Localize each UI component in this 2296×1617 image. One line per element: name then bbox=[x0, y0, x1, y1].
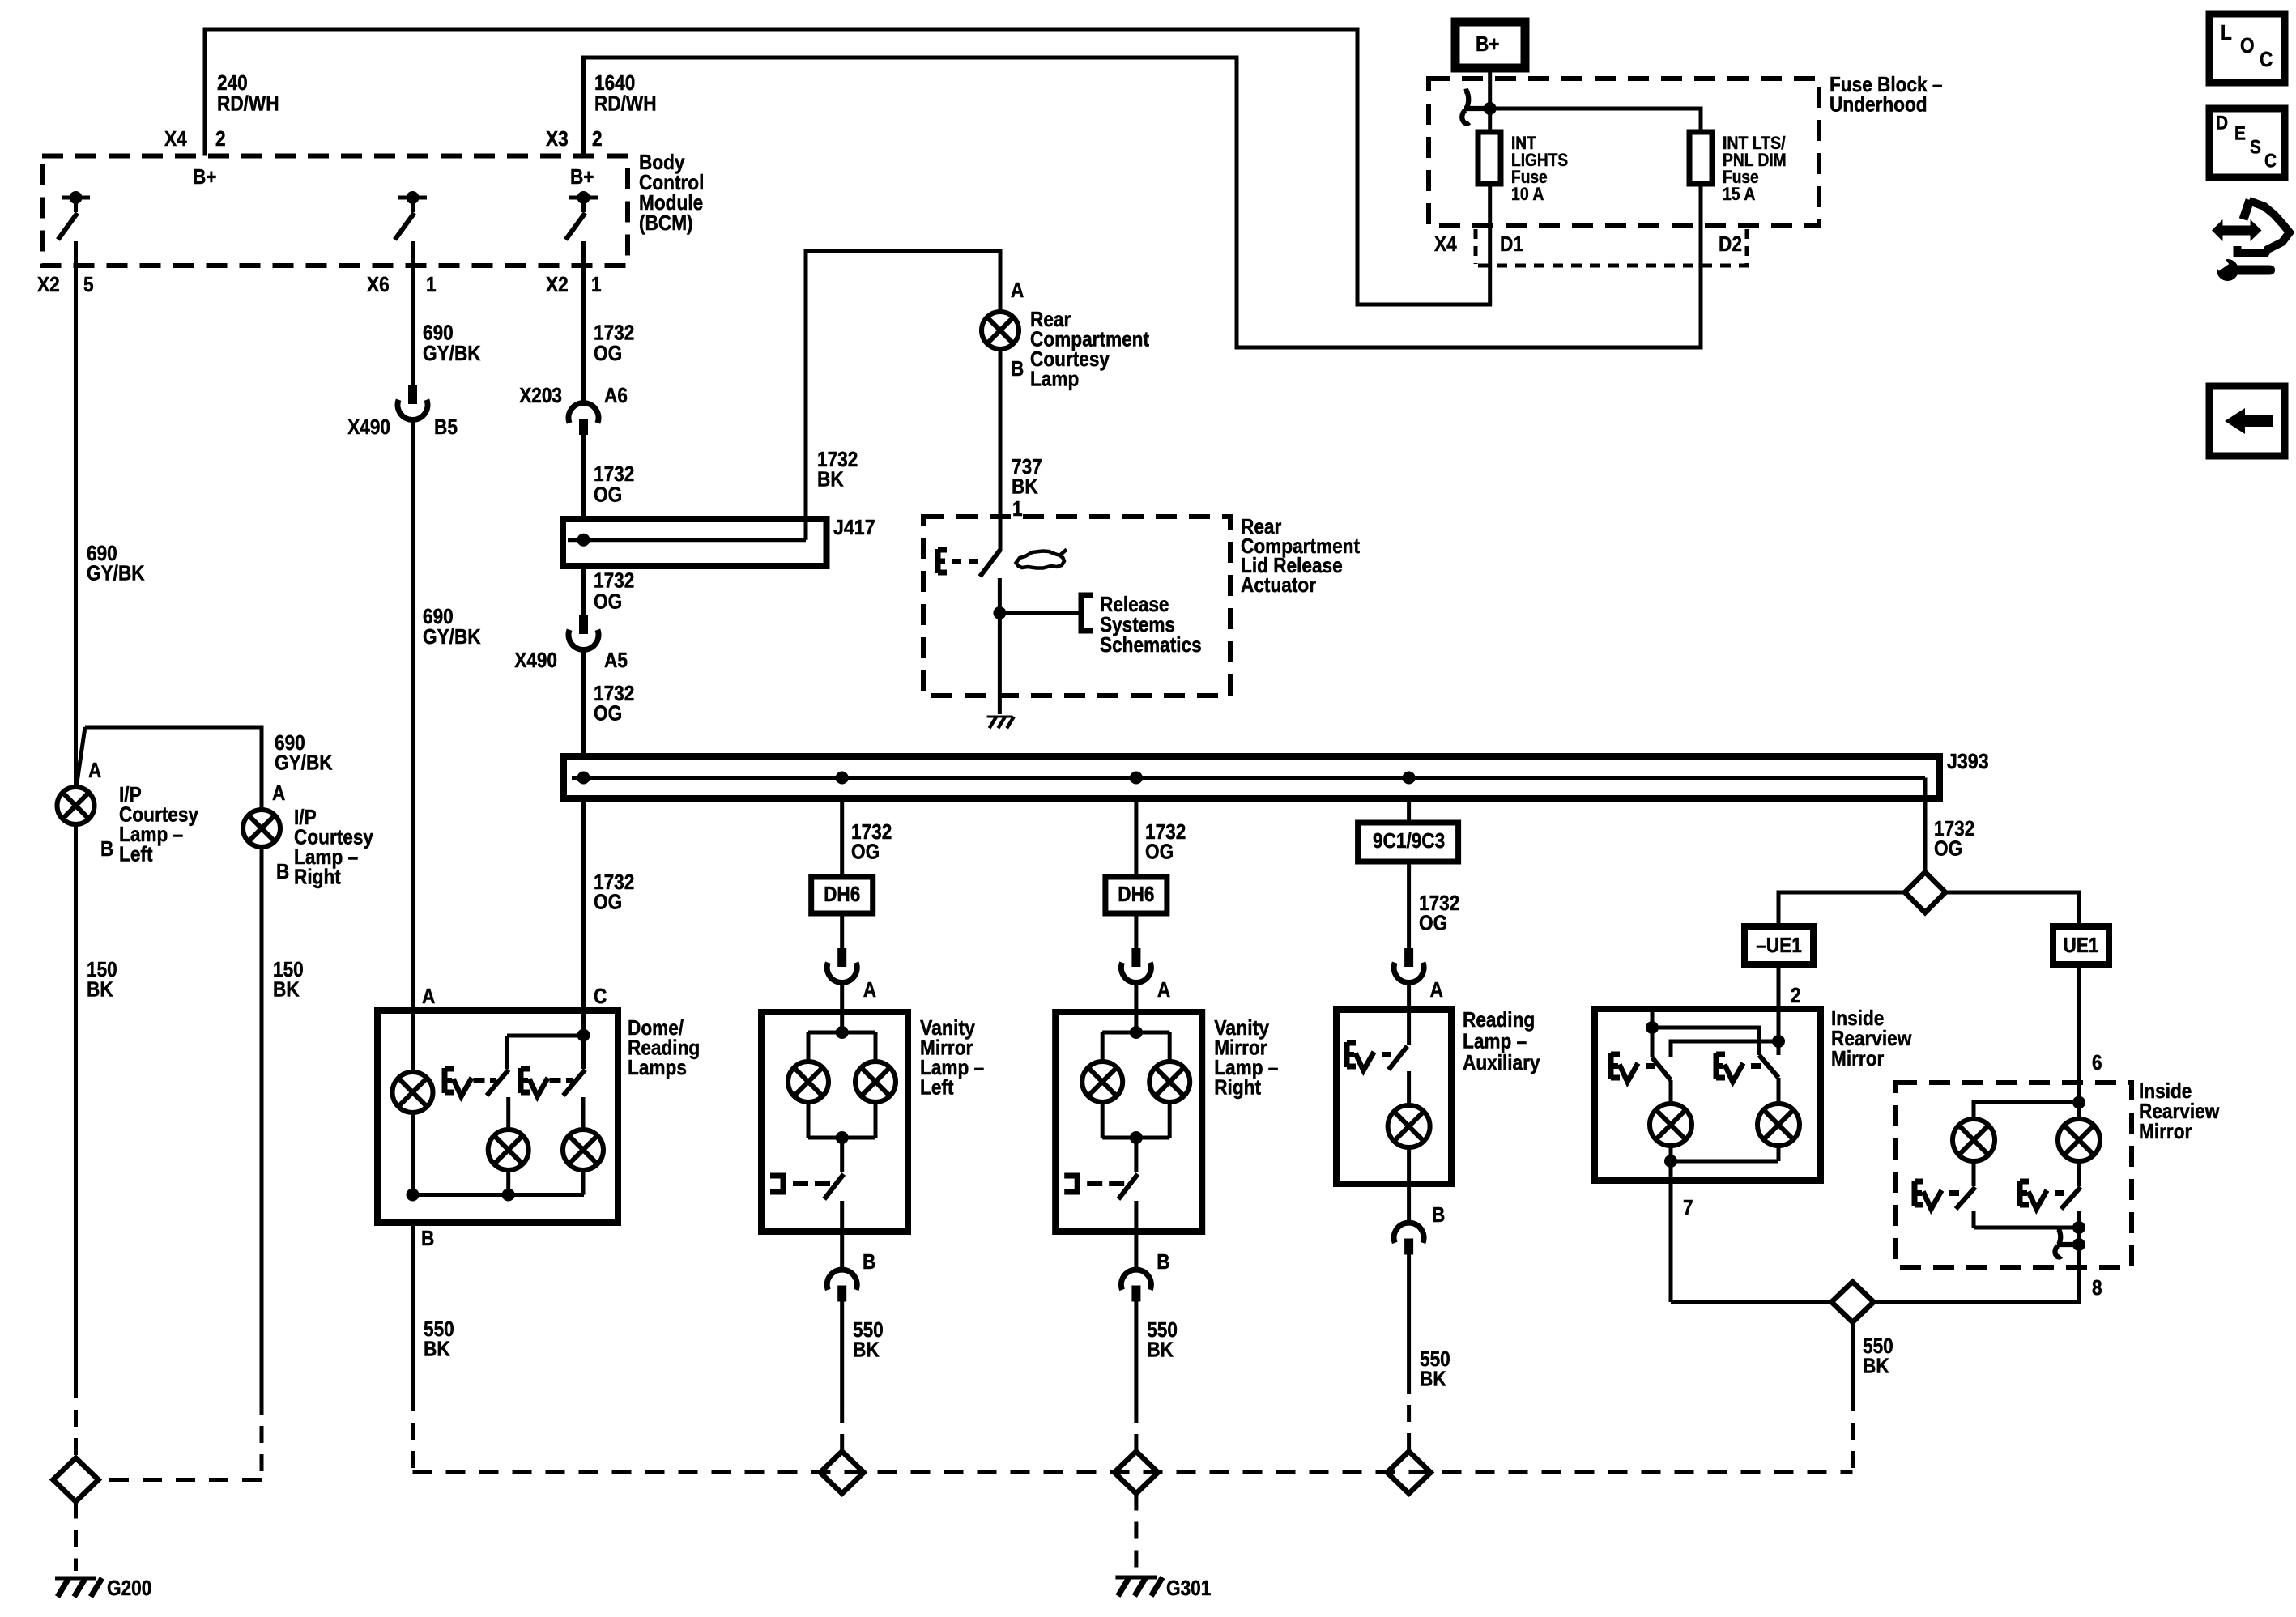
label X490 A5 bbox=[514, 648, 628, 672]
wire vanity left B bbox=[840, 1232, 844, 1270]
wire mirror dashed internal rail bbox=[1974, 1226, 2079, 1230]
svg-text:10 A: 10 A bbox=[1511, 184, 1544, 204]
wire mirror dashed lamp2 feed bbox=[2077, 1103, 2081, 1120]
fuse INT LTS/PNL DIM 15 A bbox=[1689, 132, 1787, 204]
junction dot mirror line2 bbox=[1772, 1035, 1785, 1048]
svg-text:X4: X4 bbox=[1434, 232, 1457, 256]
svg-text:B+: B+ bbox=[570, 164, 594, 189]
svg-text:B: B bbox=[1157, 1249, 1169, 1274]
junction dot dome rail mid bbox=[502, 1189, 515, 1202]
lamp Reading Lamp Auxiliary bbox=[1388, 1105, 1430, 1147]
wire 1732 OG J393 to dome lamps C bbox=[581, 798, 586, 1011]
wire label 1732 OG (above J417) bbox=[594, 462, 634, 507]
svg-text:A5: A5 bbox=[604, 648, 628, 672]
junction dot mirror solid rail bbox=[1664, 1155, 1677, 1168]
svg-text:BK: BK bbox=[853, 1337, 880, 1361]
junction dot mirror dashed rail bbox=[2072, 1221, 2085, 1234]
inline connector vanity left pin A bbox=[827, 948, 857, 982]
wire to vanity left box bbox=[840, 983, 844, 1012]
splice diamond reading aux bbox=[1387, 1452, 1431, 1494]
wire 1732 OG J393 to DH6 right bbox=[1134, 798, 1138, 877]
switch BCM output 2 bbox=[395, 191, 428, 240]
module box Inside Rearview Mirror dashed bbox=[1896, 1083, 2132, 1267]
svg-text:C: C bbox=[2264, 150, 2277, 172]
svg-text:8: 8 bbox=[2092, 1275, 2102, 1300]
module box Dome/Reading Lamps bbox=[377, 1011, 618, 1223]
label X490 B5 bbox=[347, 415, 458, 439]
svg-text:L: L bbox=[2221, 20, 2232, 45]
svg-text:DH6: DH6 bbox=[1118, 882, 1154, 906]
splice diamond 550 BK mirror bbox=[1832, 1282, 1874, 1322]
bracket vanity right switch bbox=[1064, 1176, 1124, 1192]
svg-text:7: 7 bbox=[1683, 1195, 1693, 1219]
wire label 1732 OG vanity left bbox=[851, 819, 892, 864]
junction dot mirror dashed hook bbox=[2072, 1238, 2085, 1251]
svg-text:A: A bbox=[1011, 278, 1024, 302]
switch BCM output 1 bbox=[58, 191, 91, 240]
svg-text:Mirror: Mirror bbox=[1831, 1046, 1884, 1070]
svg-text:A: A bbox=[422, 984, 435, 1008]
wire ground rail to G301 dashed bbox=[413, 1470, 1853, 1474]
lamp vanity right 1 bbox=[1082, 1062, 1122, 1138]
fusible-link hook mirror dashed bbox=[2055, 1230, 2079, 1257]
lamp mirror solid 1 bbox=[1650, 1104, 1692, 1161]
wire 240 RD/WH from fuse D1 to BCM X4-2 bbox=[205, 29, 1490, 304]
wire 550 BK mirror to rail bbox=[1851, 1322, 1855, 1473]
label Inside Rearview Mirror solid box bbox=[1831, 1006, 1912, 1070]
wire 550 BK vanity right bbox=[1134, 1301, 1138, 1452]
wire mirror dashed top rail bbox=[1974, 1103, 2079, 1120]
svg-text:X203: X203 bbox=[519, 383, 562, 407]
svg-text:E: E bbox=[2234, 122, 2246, 144]
icon box DESC bbox=[2209, 109, 2285, 177]
lamp dome courtesy (A side) bbox=[393, 1011, 433, 1195]
wire label 1732 OG (above J393) bbox=[594, 681, 634, 726]
label Reading Lamp - Auxiliary bbox=[1463, 1007, 1540, 1074]
svg-text:OG: OG bbox=[594, 482, 622, 506]
module box BCM (Body Control Module) dashed outline bbox=[42, 156, 628, 266]
wire splice to UE1 bbox=[1945, 892, 2079, 926]
junction dot B+ rail bbox=[1484, 102, 1497, 115]
wire G301 drop dashed bbox=[1134, 1494, 1138, 1570]
svg-text:15 A: 15 A bbox=[1723, 184, 1755, 204]
svg-text:DH6: DH6 bbox=[824, 882, 860, 906]
wire 1732 OG J393 right end to splice bbox=[1923, 778, 1928, 873]
svg-text:6: 6 bbox=[2092, 1050, 2102, 1074]
switch reading aux bbox=[1389, 1010, 1409, 1105]
wire to reading aux box bbox=[1407, 983, 1411, 1010]
junction dot J393 vanity right bbox=[1130, 772, 1143, 785]
label Inside Rearview Mirror dashed box bbox=[2139, 1079, 2220, 1143]
label Dome/Reading Lamps bbox=[628, 1015, 700, 1079]
wire reading aux lamp to B bbox=[1407, 1147, 1411, 1223]
splice diamond G200 bbox=[53, 1458, 99, 1502]
pin label X6 1 (BCM bottom middle) bbox=[367, 272, 437, 296]
bracket vanity left switch bbox=[770, 1176, 830, 1192]
wire to ground G200 dashed bbox=[74, 1502, 78, 1572]
junction dot mirror dashed top bbox=[2072, 1096, 2085, 1109]
connector DH6 vanity left bbox=[811, 877, 873, 913]
svg-text:OG: OG bbox=[1934, 836, 1962, 860]
module box Vanity Mirror Lamp - Right bbox=[1055, 1012, 1202, 1232]
lamp mirror dashed 1 bbox=[1953, 1119, 1995, 1186]
module box Reading Lamp - Auxiliary bbox=[1336, 1010, 1451, 1184]
svg-text:A: A bbox=[272, 781, 285, 805]
label Ev dome switch 1 bbox=[445, 1068, 496, 1096]
svg-text:Left: Left bbox=[119, 841, 153, 866]
wire label 737 BK bbox=[1012, 454, 1042, 499]
svg-text:Auxiliary: Auxiliary bbox=[1463, 1050, 1540, 1074]
wire mirror internal line1 bbox=[1652, 1028, 1759, 1055]
bracket release systems reference bbox=[1081, 595, 1093, 631]
svg-text:A: A bbox=[863, 977, 876, 1002]
inline connector vanity right pin B bbox=[1121, 1270, 1151, 1301]
svg-text:GY/BK: GY/BK bbox=[423, 624, 481, 649]
svg-text:B: B bbox=[1432, 1202, 1445, 1227]
junction dot vanity left bottom bbox=[836, 1131, 849, 1144]
wire DH6 to inline connector vanity left bbox=[840, 913, 844, 948]
label Fuse Block - Underhood bbox=[1830, 72, 1943, 117]
inline connector reading aux pin A bbox=[1394, 948, 1424, 982]
module box Inside Rearview Mirror (solid) bbox=[1595, 1009, 1821, 1181]
switch dome reading lamp 2 bbox=[564, 1036, 586, 1130]
lamp vanity left 2 bbox=[855, 1062, 896, 1138]
svg-text:GY/BK: GY/BK bbox=[275, 750, 333, 774]
inline connector vanity left pin B bbox=[827, 1270, 857, 1301]
svg-text:UE1: UE1 bbox=[2064, 933, 2099, 957]
wire 150 BK right lamp to G200 rail bbox=[99, 847, 262, 1480]
svg-text:O: O bbox=[2240, 33, 2255, 57]
wire -UE1 to mirror pin 2 bbox=[1777, 964, 1781, 1009]
svg-text:OG: OG bbox=[1419, 910, 1447, 934]
svg-text:D1: D1 bbox=[1500, 232, 1523, 256]
label Rear Compartment Lid Release Actuator bbox=[1241, 514, 1360, 597]
pin label X4 2 (BCM top left) bbox=[164, 126, 226, 151]
label Vanity Mirror Lamp - Right bbox=[1214, 1015, 1278, 1100]
svg-text:X3: X3 bbox=[546, 126, 569, 151]
svg-text:GY/BK: GY/BK bbox=[423, 341, 481, 365]
svg-text:B+: B+ bbox=[193, 164, 217, 189]
svg-text:Actuator: Actuator bbox=[1241, 572, 1316, 597]
wire mirror solid internal rail bbox=[1671, 1160, 1778, 1164]
wire label 1732 OG (to dome C) bbox=[594, 870, 634, 914]
pin label X3 2 (BCM top right) bbox=[546, 126, 603, 151]
label Ev dome switch 2 bbox=[521, 1068, 573, 1096]
inline connector X490 pin A5 bbox=[569, 615, 598, 649]
inline connector vanity right pin A bbox=[1121, 948, 1151, 982]
svg-text:BK: BK bbox=[1147, 1337, 1174, 1361]
switch mirror solid 2 bbox=[1759, 1055, 1778, 1104]
wire label 550 BK vanity right bbox=[1147, 1317, 1178, 1362]
svg-text:X2: X2 bbox=[37, 272, 60, 296]
wire label 1732 BK bbox=[817, 447, 858, 491]
svg-text:C: C bbox=[2260, 47, 2273, 71]
switch mirror solid 1 bbox=[1652, 1057, 1671, 1104]
wire label 1732 OG vanity right bbox=[1145, 819, 1186, 864]
connector strip X4 D1 D2 bbox=[1434, 229, 1749, 266]
svg-text:A: A bbox=[88, 758, 101, 782]
svg-text:5: 5 bbox=[83, 272, 94, 296]
fusible-link hook at B+ junction bbox=[1462, 91, 1490, 124]
svg-text:B: B bbox=[1011, 356, 1024, 381]
svg-text:Lamps: Lamps bbox=[628, 1055, 687, 1079]
switch mirror dashed 2 bbox=[2061, 1187, 2081, 1228]
wire actuator internal ground bbox=[998, 613, 1002, 714]
wire vanity left lamps to switch bbox=[808, 1138, 875, 1172]
svg-text:X490: X490 bbox=[347, 415, 390, 439]
wire 1732 OG J393 to 9C1/9C3 bbox=[1407, 798, 1411, 823]
svg-text:BK: BK bbox=[273, 977, 300, 1001]
svg-text:1: 1 bbox=[591, 272, 602, 296]
lamp vanity left 1 bbox=[788, 1062, 829, 1138]
inline connector reading aux pin B bbox=[1394, 1223, 1424, 1254]
wire label 690 GY/BK bbox=[87, 541, 145, 585]
icon box LOC bbox=[2209, 14, 2285, 83]
wire 690 GY/BK BCM X2-5 to I/P lamps bbox=[74, 241, 78, 787]
svg-text:J417: J417 bbox=[833, 515, 875, 539]
wire label 550 BK reading aux bbox=[1420, 1347, 1450, 1391]
wire label 1640 RD/WH bbox=[594, 70, 657, 116]
label Body Control Module (BCM) bbox=[639, 150, 704, 235]
svg-text:RD/WH: RD/WH bbox=[594, 91, 657, 115]
svg-text:–UE1: –UE1 bbox=[1756, 933, 1802, 957]
svg-text:OG: OG bbox=[594, 589, 622, 613]
svg-text:Lamp –: Lamp – bbox=[1463, 1028, 1527, 1053]
svg-text:Left: Left bbox=[920, 1074, 954, 1099]
wire 1732 BK J417 to rear courtesy lamp bbox=[806, 252, 1000, 540]
svg-text:B: B bbox=[421, 1226, 434, 1250]
wire 1732 OG J393 to DH6 left bbox=[840, 798, 844, 877]
lamp I/P Courtesy Lamp - Left bbox=[58, 787, 95, 824]
svg-text:1: 1 bbox=[426, 272, 437, 296]
splice bus J393 bbox=[564, 756, 1940, 798]
wire 9C1/9C3 to inline connector aux bbox=[1407, 862, 1411, 948]
wire UE1 to dashed mirror pin 6 bbox=[2077, 964, 2081, 1103]
switch actuator door-jamb bbox=[980, 550, 1000, 613]
wire 737 BK lamp to actuator bbox=[999, 349, 1003, 551]
wire label 1732 OG (X2-1) bbox=[594, 320, 634, 365]
fuse INT LIGHTS 10 A bbox=[1478, 132, 1568, 204]
junction dot J393 reading aux bbox=[1403, 772, 1416, 785]
label I/P Courtesy Lamp - Right bbox=[294, 805, 373, 889]
connector DH6 vanity right bbox=[1105, 877, 1167, 913]
connector -UE1 bbox=[1744, 926, 1813, 964]
module box Fuse Block - Underhood dashed outline bbox=[1429, 79, 1819, 226]
pin label X2 1 (BCM bottom right) bbox=[546, 272, 602, 296]
svg-text:BK: BK bbox=[424, 1336, 450, 1360]
terminal B+ battery feed bbox=[1455, 22, 1525, 68]
lamp mirror solid 2 bbox=[1757, 1104, 1800, 1161]
svg-text:A: A bbox=[1430, 977, 1443, 1002]
module box Rear Compartment Lid Release Actuator dashed bbox=[923, 517, 1230, 696]
wire 1732 OG J417 to X490 A5 bbox=[581, 566, 586, 615]
svg-text:Lamp: Lamp bbox=[1030, 366, 1079, 390]
svg-text:C: C bbox=[594, 984, 607, 1008]
splice diamond vanity left bbox=[820, 1452, 864, 1494]
junction dot dome rail left bbox=[407, 1189, 420, 1202]
wire label 1732 OG aux bbox=[1419, 891, 1459, 935]
svg-text:B: B bbox=[276, 859, 289, 883]
wire 1732 OG X490 A5 to bus J393 bbox=[581, 650, 586, 756]
svg-text:B5: B5 bbox=[434, 415, 458, 439]
svg-text:GY/BK: GY/BK bbox=[87, 560, 145, 585]
svg-text:2: 2 bbox=[592, 126, 603, 151]
switch vanity right bbox=[1118, 1174, 1138, 1232]
junction dot dome C bbox=[577, 1029, 590, 1042]
wire 550 BK vanity left bbox=[840, 1301, 844, 1452]
svg-text:X6: X6 bbox=[367, 272, 390, 296]
label Ev mirror dashed switch 2 bbox=[2020, 1181, 2064, 1209]
lamp Rear Compartment Courtesy Lamp bbox=[982, 312, 1019, 349]
label Ev mirror solid switch 2 bbox=[1716, 1053, 1761, 1082]
svg-text:Underhood: Underhood bbox=[1830, 91, 1928, 116]
svg-text:Mirror: Mirror bbox=[2139, 1119, 2192, 1143]
wire branch tap to right I/P lamp bbox=[77, 727, 262, 810]
icon car silhouette bbox=[1016, 550, 1067, 568]
wire vanity left A to lamps bbox=[808, 1012, 875, 1062]
svg-text:BK: BK bbox=[1863, 1353, 1889, 1377]
wire 550 BK reading aux bbox=[1407, 1254, 1411, 1452]
module box Vanity Mirror Lamp - Left bbox=[761, 1012, 908, 1232]
label Vanity Mirror Lamp - Left bbox=[920, 1015, 984, 1100]
label E bracket actuator switch bbox=[938, 549, 978, 573]
wire DH6 to inline connector vanity right bbox=[1134, 913, 1138, 948]
lamp dome reading 2 bbox=[563, 1130, 603, 1195]
switch BCM output 3 bbox=[566, 191, 598, 240]
svg-text:BK: BK bbox=[1420, 1366, 1446, 1390]
lamp I/P Courtesy Lamp - Right bbox=[243, 810, 280, 847]
svg-text:2: 2 bbox=[215, 126, 226, 151]
svg-text:Schematics: Schematics bbox=[1100, 632, 1202, 657]
wire label 1732 OG (below J417) bbox=[594, 568, 634, 613]
wire 690 GY/BK BCM X6-1 to X490 B5 bbox=[411, 241, 415, 385]
wire mirror pin 7 to splice bbox=[1671, 1300, 1832, 1304]
junction dot vanity right bottom bbox=[1130, 1131, 1143, 1144]
wire mirror pin 8 out bbox=[1873, 1228, 2079, 1302]
wire actuator to release systems bbox=[999, 611, 1081, 615]
lamp vanity right 2 bbox=[1149, 1062, 1190, 1138]
wire label 550 BK dome bbox=[424, 1317, 454, 1361]
splice bus J417 bbox=[563, 519, 827, 566]
wire label 550 BK mirror bbox=[1863, 1334, 1893, 1378]
label Ev mirror solid switch 1 bbox=[1611, 1053, 1655, 1082]
wire 150 BK left lamp to G200 bbox=[74, 824, 78, 1457]
wire label 690 GY/BK (to dome) bbox=[423, 604, 481, 649]
wire vanity right lamps to switch bbox=[1102, 1138, 1169, 1172]
svg-text:OG: OG bbox=[594, 700, 622, 725]
inline connector X490 pin B5 bbox=[398, 385, 428, 419]
svg-text:2: 2 bbox=[1791, 983, 1801, 1007]
lamp mirror dashed 2 bbox=[2058, 1119, 2100, 1186]
svg-text:BK: BK bbox=[87, 977, 113, 1001]
wire mirror pin 2 internal bbox=[1777, 1009, 1781, 1055]
junction dot J393 dome column bbox=[577, 772, 590, 785]
ground actuator internal bbox=[987, 717, 1014, 728]
svg-text:X4: X4 bbox=[164, 126, 187, 151]
wire label 150 BK left bbox=[87, 957, 117, 1002]
splice diamond vanity right bbox=[1114, 1452, 1158, 1494]
junction dot vanity left top bbox=[836, 1026, 849, 1039]
ground G301 bbox=[1115, 1577, 1162, 1596]
svg-text:OG: OG bbox=[594, 341, 622, 365]
wire dome C feed bbox=[507, 1011, 584, 1036]
junction dot actuator bbox=[993, 606, 1006, 619]
wire label 150 BK right bbox=[273, 957, 304, 1002]
svg-text:B: B bbox=[100, 836, 113, 861]
svg-text:(BCM): (BCM) bbox=[639, 211, 693, 235]
svg-text:G301: G301 bbox=[1166, 1576, 1211, 1600]
svg-text:BK: BK bbox=[817, 466, 844, 491]
svg-text:1: 1 bbox=[1012, 496, 1023, 521]
junction dot mirror line1 bbox=[1646, 1021, 1659, 1034]
switch dome reading lamp 1 bbox=[487, 1036, 509, 1130]
svg-text:D2: D2 bbox=[1719, 232, 1742, 256]
label Rear Compartment Courtesy Lamp bbox=[1030, 307, 1149, 391]
svg-text:Right: Right bbox=[294, 864, 341, 888]
svg-text:A: A bbox=[1157, 977, 1170, 1002]
wire to vanity right box bbox=[1134, 983, 1138, 1012]
svg-text:RD/WH: RD/WH bbox=[217, 91, 279, 115]
switch vanity left bbox=[824, 1174, 844, 1232]
wire label 240 RD/WH bbox=[217, 70, 279, 116]
wire mirror pin 7 out bbox=[1669, 1161, 1673, 1302]
svg-text:Right: Right bbox=[1214, 1074, 1261, 1099]
inline connector X203 pin A6 bbox=[569, 403, 598, 435]
label Ev mirror dashed switch 1 bbox=[1915, 1181, 1959, 1209]
connector UE1 bbox=[2053, 926, 2109, 964]
switch mirror dashed 1 bbox=[1956, 1187, 1975, 1228]
wire mirror internal line2 bbox=[1671, 1041, 1778, 1057]
svg-text:OG: OG bbox=[851, 839, 880, 863]
svg-text:G200: G200 bbox=[107, 1576, 151, 1600]
svg-text:S: S bbox=[2250, 136, 2261, 158]
junction dot vanity right top bbox=[1130, 1026, 1143, 1039]
ground G200 bbox=[55, 1578, 102, 1597]
svg-text:X490: X490 bbox=[514, 648, 557, 672]
label Release Systems Schematics bbox=[1100, 592, 1202, 657]
svg-text:BK: BK bbox=[1012, 474, 1038, 498]
svg-text:B+: B+ bbox=[1476, 32, 1500, 56]
svg-text:OG: OG bbox=[594, 889, 622, 913]
wire label 690 GY/BK right branch bbox=[275, 730, 333, 775]
wire label 550 BK vanity left bbox=[853, 1317, 884, 1362]
wire 1640 RD/WH from fuse D2 to BCM X3-2 bbox=[584, 57, 1702, 347]
icon part locator with wrench bbox=[2212, 200, 2290, 281]
wire B+ rail to INT LTS fuse bbox=[1490, 109, 1701, 132]
wire splice to -UE1 bbox=[1778, 892, 1905, 926]
label I/P Courtesy Lamp - Left bbox=[119, 782, 198, 866]
splice diamond mirror feed bbox=[1905, 872, 1945, 913]
icon box back arrow bbox=[2209, 386, 2285, 456]
wire vanity right A to lamps bbox=[1102, 1012, 1169, 1062]
wire 690 GY/BK X490 to dome lamps A bbox=[411, 420, 415, 1011]
wire 550 BK dome to ground rail bbox=[411, 1223, 415, 1473]
svg-text:OG: OG bbox=[1145, 839, 1174, 863]
wire 1732 OG BCM X2-1 to X203 A6 bbox=[581, 241, 586, 404]
wire B+ to fuse block bbox=[1488, 68, 1492, 132]
svg-text:9C1/9C3: 9C1/9C3 bbox=[1373, 828, 1445, 853]
junction dot J417 bbox=[577, 534, 590, 547]
wire label 1732 OG mirror bbox=[1934, 816, 1974, 861]
wire label 690 GY/BK (X6 output) bbox=[423, 320, 481, 365]
svg-text:B: B bbox=[863, 1249, 875, 1274]
connector 9C1/9C3 bbox=[1358, 823, 1459, 862]
wire vanity right B bbox=[1134, 1232, 1138, 1270]
label Ev reading aux switch bbox=[1347, 1042, 1391, 1070]
svg-text:J393: J393 bbox=[1947, 749, 1989, 773]
svg-text:Reading: Reading bbox=[1463, 1007, 1535, 1032]
svg-text:A6: A6 bbox=[604, 383, 628, 407]
